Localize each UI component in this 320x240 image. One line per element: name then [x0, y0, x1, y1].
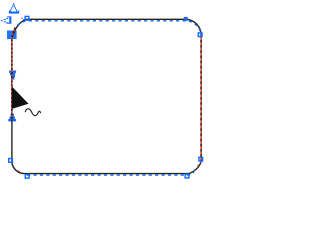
node handle: right edge top (open square): [198, 33, 202, 37]
blue marker stepped triangle pointing down (left edge upper): [9, 71, 16, 80]
red pixel inside top-left node: [28, 19, 29, 20]
red highlight underlay: right edge: [200, 31, 203, 161]
subpixel artifact green on bottom-right arc: [193, 172, 194, 173]
black cursor flag triangle: [12, 87, 29, 109]
red dash fragment on bottom-left corner arc: [18, 171, 20, 172]
black tilde squiggle: [25, 109, 40, 116]
blue dashed highlight: bottom edge into bottom-right arc: [27, 173, 193, 175]
canvas background: [0, 0, 205, 179]
blue marker stepped triangle pointing up (left edge lower): [8, 114, 16, 122]
red highlight underlay: lower top-left arc and left edge: [12, 28, 15, 120]
node handle: right edge bottom (open square): [199, 157, 203, 161]
black dash ticks over right edge red: [200, 31, 203, 161]
black dash ticks over left edge red: [12, 28, 15, 120]
magenta pixel left of top-left node: [23, 19, 24, 20]
subpixel artifact green on bottom-left arc exit: [11, 164, 12, 165]
subpixel artifact purple on top-left arc near node: [21, 18, 23, 19]
blue dashed highlight: upper top-left arc, top edge, top-right arc: [17, 21, 201, 36]
rounded rectangle path (black outline): [12, 19, 201, 173]
node handle: bottom edge left (open square): [25, 175, 29, 179]
red fragment on bottom edge left of bottom-right node: [185, 173, 188, 175]
blue dot on bottom-right arc: [194, 170, 195, 171]
red dot on bottom-right arc: [197, 165, 198, 166]
red pixel inside top-right filled node: [185, 19, 186, 20]
magenta dot below right-bottom node: [200, 162, 201, 163]
node handle: bottom edge right (open square): [185, 174, 189, 178]
up-cone glyph at top-left: [9, 3, 19, 14]
selected node big filled square (left edge top node): [7, 31, 17, 40]
node handle: top edge left (open square): [25, 16, 29, 20]
left-cone glyph at top-left: [1, 16, 12, 24]
subpixel artifact below left-bottom node: [11, 163, 12, 164]
node handle: left edge bottom (open square): [9, 159, 13, 163]
node handle: top edge right (small filled square): [184, 17, 188, 21]
